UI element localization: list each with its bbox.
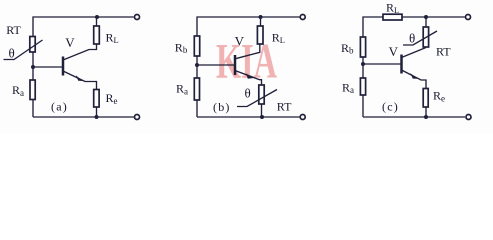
terminal: bottom output (b) [300,115,305,120]
svg-text:V: V [389,44,399,59]
node: junction bottom rail / Re (c) [424,115,428,119]
node: junction bottom rail / RT (b) [260,115,264,119]
resistor Ra body (c) [360,78,365,95]
svg-text:Re: Re [433,89,445,104]
node: base junction (a) [31,65,35,69]
thermistor RT diagonal (a) [4,40,43,60]
svg-text:RT: RT [277,100,292,114]
resistor Ra body (a) [30,80,35,100]
wire: circuit (b) top rail [197,17,300,36]
thermistor RT body (b) [259,85,264,104]
svg-text:(c): (c) [382,100,399,114]
svg-text:θ: θ [245,86,251,101]
wire: Ra to bottom rail (b) [196,100,198,117]
node: base junction (c) [361,62,365,66]
node: junction top rail / RT (c) [424,15,428,19]
svg-text:Rb: Rb [175,41,188,55]
wire: bottom rail (c) [363,116,465,118]
wire: RT bottom lead (b) [261,104,263,117]
wire: circuit (c) top rail left [363,17,383,37]
wire: base lead (c) [363,63,401,65]
transistor emitter wire (a) [63,71,97,90]
wire: circuit (a) top rail [33,17,134,37]
transistor collector wire (c) [402,48,427,58]
svg-text:RT: RT [6,23,21,37]
svg-text:θ: θ [9,46,15,61]
transistor collector wire (a) [63,44,97,60]
thermistor RT body (a) [30,37,35,53]
wire: Ra to bottom rail (c) [362,95,364,117]
thermistor RT diagonal (b) [237,90,277,107]
resistor Re body (c) [423,89,428,108]
thermistor RT diagonal (c) [403,31,437,45]
svg-text:V: V [65,35,75,50]
transistor V bar (a) [62,57,65,76]
resistor RL body (c) horizontal [383,14,402,20]
transistor emitter arrow (a) [76,75,83,81]
resistor Rb body (b) [194,36,199,56]
node: junction top rail / RL (b) [259,15,263,19]
svg-text:Ra: Ra [12,83,24,98]
svg-text:θ: θ [409,31,415,46]
transistor emitter wire (b) [235,71,262,86]
wire: Rb to base node (b) [196,56,198,78]
terminal: top output (b) [300,15,305,20]
wire: Ra to bottom rail (a) [32,100,34,118]
wire: RT top lead (c) [425,17,427,27]
resistor Re body (a) [94,90,99,108]
svg-text:(b): (b) [213,100,231,114]
transistor emitter arrow (c) [410,73,417,79]
wire: RL top lead (b) [260,17,262,26]
wire: Rb to base node (c) [362,57,364,78]
svg-text:RL: RL [386,1,399,16]
svg-text:Ra: Ra [176,82,188,97]
resistor Ra body (b) [194,78,199,100]
svg-text:Rb: Rb [341,41,354,55]
svg-text:KIA: KIA [216,33,277,89]
wire: RL top lead (a) [96,17,98,26]
svg-text:RL: RL [272,31,285,46]
transistor emitter arrow (b) [246,74,254,79]
transistor V bar (b) [234,55,237,75]
wire: base lead (b) [197,64,234,66]
svg-text:RL: RL [106,31,119,46]
terminal: top output (c) [466,15,471,20]
terminal: bottom output (c) [466,115,471,120]
svg-text:(a): (a) [51,100,68,114]
transistor V bar (c) [400,55,403,74]
wire: RT to base node (a) [32,52,34,80]
node: base junction (b) [195,63,199,67]
svg-text:RT: RT [436,45,451,59]
wire: circuit (c) top rail right [402,16,465,18]
resistor Rb body (c) [360,37,365,57]
wire: base lead (a) [33,66,62,68]
transistor collector wire (b) [235,44,260,59]
node: junction top rail / RL (a) [95,15,99,19]
thermistor RT body (c) [423,27,428,47]
svg-text:Ra: Ra [342,80,354,95]
wire: bottom rail (a) [33,116,134,118]
terminal: top output (a) [135,15,140,20]
resistor RL body (b) [257,26,263,44]
svg-text:V: V [235,34,245,49]
wire: Re bottom lead (a) [96,107,98,117]
svg-text:Re: Re [106,91,118,106]
node: junction bottom rail / Re (a) [95,115,99,119]
transistor emitter wire (c) [402,70,427,89]
wire: Re bottom lead (c) [425,107,427,117]
resistor RL body (a) [94,26,100,44]
wire: bottom rail (b) [197,116,300,118]
terminal: bottom output (a) [135,115,140,120]
